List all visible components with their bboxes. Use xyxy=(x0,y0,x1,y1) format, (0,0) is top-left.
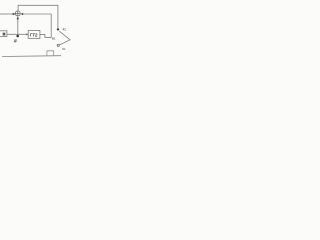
wire from left box to middle box xyxy=(7,33,28,35)
contact circle x2 xyxy=(57,44,59,46)
svg-text:K1: K1 xyxy=(63,28,67,32)
left box (clipped at image edge) xyxy=(0,31,7,37)
svg-text:ГТ2: ГТ2 xyxy=(30,33,38,38)
arrowhead bottom input (points up) xyxy=(17,16,20,19)
wire left input to summing junction xyxy=(0,13,13,15)
svg-text:Э: Э xyxy=(2,33,5,37)
wire top feedback loop xyxy=(18,5,58,28)
node K1 contact dot xyxy=(57,28,59,30)
switch lever arms xyxy=(59,31,70,45)
wire right input from feedback vertical xyxy=(23,13,51,15)
arrowhead right input (points left) xyxy=(21,13,24,15)
wire bottom vertical into summing junction xyxy=(17,19,19,36)
wire bottom feedback line xyxy=(2,55,61,58)
left box label glyph xyxy=(3,33,6,36)
summing junction circle with cross xyxy=(15,11,20,16)
wire vertical feedback right branch xyxy=(50,14,52,37)
svg-text:д1: д1 xyxy=(14,38,18,42)
node junction dot under summing branch xyxy=(16,35,19,38)
wire output of middle box with jog xyxy=(40,34,52,37)
middle box IT2 xyxy=(28,30,40,38)
small box on bottom wire xyxy=(47,51,54,56)
arrowhead left input (points right) xyxy=(13,13,16,16)
arrowhead into middle box (points right) xyxy=(26,33,28,35)
